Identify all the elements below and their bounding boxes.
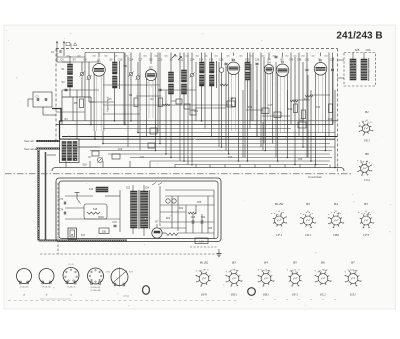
wire — [201, 224, 203, 233]
capacitor C64 — [201, 220, 203, 224]
chassis right dashed boundary wire — [337, 49, 339, 174]
bus wire — [138, 132, 335, 134]
component box — [112, 154, 120, 159]
svg-text:R16: R16 — [288, 108, 293, 111]
wire — [103, 104, 233, 106]
tube base diagram EF1 — [287, 270, 302, 287]
wire — [42, 107, 44, 115]
wire — [146, 118, 148, 137]
svg-text:R19: R19 — [328, 118, 333, 121]
label tick — [114, 55, 117, 56]
tube base diagram CF1 — [271, 212, 287, 227]
wire — [332, 72, 334, 125]
wire — [332, 53, 334, 69]
junction — [155, 150, 157, 152]
wire — [306, 72, 308, 158]
wire — [298, 53, 300, 137]
svg-text:CB2: CB2 — [333, 233, 339, 237]
power pack outer box — [56, 178, 221, 242]
switch contact arrow — [172, 55, 176, 59]
faint note line — [8, 300, 238, 302]
svg-text:(7-09-7)0: (7-09-7)0 — [20, 287, 29, 289]
wire — [338, 59, 345, 61]
cable hatch — [36, 140, 60, 142]
wire — [196, 107, 226, 109]
wire — [137, 80, 139, 133]
tube B3 — [227, 58, 240, 131]
svg-text:S16: S16 — [89, 188, 94, 191]
label tick — [195, 55, 198, 56]
wire — [334, 90, 336, 168]
small zigzag resistor — [163, 104, 170, 106]
svg-text:R22: R22 — [166, 218, 171, 220]
switch coil winding b — [68, 142, 72, 161]
chassis left dashed boundary wire — [55, 49, 57, 141]
wire — [314, 165, 316, 168]
svg-text:B5: B5 — [364, 202, 368, 206]
svg-text:B2: B2 — [149, 66, 153, 70]
svg-text:B6: B6 — [321, 261, 325, 265]
resistor box S18 — [84, 204, 107, 219]
socket view d — [88, 268, 104, 284]
top-left tiny marks — [66, 43, 77, 46]
wire — [192, 224, 194, 233]
junction — [130, 120, 132, 122]
wire — [89, 161, 91, 168]
junction — [61, 120, 63, 122]
wire — [324, 133, 326, 151]
label tick — [164, 55, 167, 56]
svg-text:C74: C74 — [59, 209, 64, 212]
IF coil S21 winding — [246, 72, 251, 80]
svg-text:S3: S3 — [61, 80, 65, 84]
diode circle — [219, 68, 224, 73]
svg-text:B4: B4 — [264, 261, 268, 265]
svg-text:R12: R12 — [194, 110, 199, 113]
capacitor C76 — [114, 225, 117, 227]
socket view a — [17, 269, 32, 284]
capacitor C59 — [331, 69, 334, 71]
capacitor C73 — [64, 202, 66, 205]
wire — [159, 91, 161, 144]
svg-text:C60: C60 — [366, 48, 371, 52]
svg-text:EK1: EK1 — [230, 293, 237, 297]
chassis bottom dash-dot line — [5, 173, 352, 175]
small zigzag resistor — [290, 100, 298, 102]
power pack bottom dashed line — [40, 253, 220, 255]
svg-text:C22: C22 — [118, 148, 123, 151]
resistor R16 — [294, 104, 298, 113]
wire — [179, 53, 181, 162]
svg-text:C14: C14 — [129, 59, 134, 62]
wire — [65, 218, 120, 220]
tube base diagram EL2 — [314, 270, 331, 286]
svg-text:CF3: CF3 — [363, 233, 369, 237]
resistor R9 — [159, 98, 163, 107]
svg-text:R17: R17 — [304, 98, 309, 101]
wire — [247, 53, 249, 63]
wire — [246, 109, 263, 111]
junction — [90, 124, 92, 126]
svg-text:B7: B7 — [351, 261, 355, 265]
wire — [239, 165, 241, 168]
label tick — [204, 55, 207, 56]
svg-text:4,5V: 4,5V — [199, 241, 204, 244]
svg-text:C1: C1 — [51, 50, 55, 54]
IF coil S14 winding — [200, 62, 205, 73]
wire — [160, 89, 196, 91]
capacitor C63 — [192, 220, 194, 224]
shielded cable to earth — [36, 147, 60, 149]
wire — [211, 53, 213, 63]
wire — [329, 165, 331, 168]
wire — [65, 161, 67, 168]
resistor S18 zigzag — [87, 212, 100, 214]
label tick — [272, 55, 275, 56]
label tick — [104, 55, 107, 56]
component box — [298, 122, 306, 128]
S17 speaker field box — [68, 228, 77, 239]
wire — [310, 90, 312, 161]
svg-text:B3: B3 — [306, 202, 310, 206]
junction — [265, 150, 267, 152]
svg-text:R14: R14 — [248, 106, 253, 109]
bus wire — [62, 120, 338, 122]
wire — [47, 154, 56, 156]
label tick — [293, 55, 296, 56]
bus wire — [60, 138, 335, 140]
svg-text:(7+4): (7+4) — [69, 264, 74, 266]
svg-text:S18: S18 — [93, 208, 98, 211]
resistor 30 — [99, 228, 109, 234]
trimmer capacitor C4 — [79, 71, 84, 76]
wire — [94, 131, 96, 139]
wire — [250, 64, 252, 121]
wire — [69, 56, 71, 64]
IF coil S20 winding — [246, 62, 251, 70]
wire — [114, 88, 116, 121]
svg-text:C65: C65 — [208, 227, 213, 230]
wire — [320, 53, 322, 57]
coil S3 winding — [68, 77, 73, 88]
wire — [102, 131, 104, 144]
wire — [61, 90, 63, 125]
svg-text:C10: C10 — [118, 59, 123, 62]
wire — [76, 90, 78, 139]
band switch coil box — [60, 139, 80, 163]
svg-text:C64: C64 — [201, 216, 206, 219]
wire — [204, 53, 206, 129]
svg-text:EB1: EB1 — [262, 293, 269, 297]
wire — [183, 94, 185, 161]
label tick — [261, 55, 264, 56]
tube base diagram EB1 — [257, 270, 274, 287]
svg-text:B7: B7 — [155, 220, 159, 224]
svg-text:S24: S24 — [145, 187, 150, 190]
pilot lamp — [166, 199, 170, 203]
wire — [286, 133, 288, 158]
wire — [192, 214, 194, 220]
wire — [150, 53, 152, 64]
svg-text:C44: C44 — [229, 97, 234, 101]
wire — [201, 53, 203, 63]
bus wire — [103, 143, 330, 145]
switch coil winding c — [73, 142, 77, 161]
label tick — [311, 55, 314, 56]
svg-text:C28: C28 — [219, 59, 224, 62]
wire — [311, 94, 330, 96]
wire — [160, 204, 214, 206]
svg-text:C56: C56 — [298, 158, 303, 161]
wire — [315, 133, 317, 165]
wire — [224, 165, 226, 168]
wire — [149, 161, 151, 168]
svg-text:241/243 B: 241/243 B — [336, 31, 382, 42]
wire — [228, 131, 230, 154]
wire — [56, 111, 85, 113]
battery 4,5V box — [195, 238, 208, 244]
svg-text:EF9: EF9 — [200, 293, 207, 297]
tube B1 — [93, 60, 106, 132]
padder capacitor box — [150, 128, 157, 134]
wire — [160, 211, 186, 213]
svg-text:C46: C46 — [289, 59, 294, 62]
wire — [201, 86, 203, 121]
label tick — [214, 55, 217, 56]
junction — [310, 160, 312, 162]
svg-text:30Ω: 30Ω — [102, 231, 107, 234]
capacitor C2a — [45, 98, 47, 101]
svg-text:EF1: EF1 — [291, 293, 298, 297]
wire — [63, 48, 65, 56]
label tick — [174, 55, 177, 56]
cable hatch — [38, 150, 40, 241]
svg-text:CK1: CK1 — [305, 233, 312, 237]
wire — [81, 62, 83, 72]
svg-text:(7+085+08): (7+085+08) — [90, 290, 101, 292]
power pack inner box — [59, 181, 218, 239]
switch T — [75, 192, 81, 204]
S17 inner box — [70, 230, 75, 237]
capacitor C3 — [65, 89, 68, 91]
wire — [89, 101, 95, 103]
wire — [162, 232, 166, 234]
svg-text:C17: C17 — [138, 59, 143, 62]
IF coil S7 winding — [113, 76, 118, 88]
capacitor C38 — [256, 63, 259, 65]
wire — [282, 53, 284, 58]
wire — [293, 99, 310, 101]
junction — [170, 157, 172, 159]
switch coil winding a — [62, 142, 66, 161]
shielded lead from input box — [52, 109, 61, 140]
wire — [290, 53, 292, 125]
capacitor C1 — [59, 51, 61, 52]
trimmer capacitor C24 — [189, 72, 194, 77]
wire — [178, 232, 214, 234]
capacitor C55 box — [274, 112, 281, 118]
IF can core 2 — [216, 61, 218, 88]
svg-text:C73: C73 — [59, 198, 64, 201]
wire — [81, 76, 83, 97]
svg-text:schaal: schaal — [123, 296, 130, 298]
svg-text:B4: B4 — [334, 202, 338, 206]
tube base diagram CB2 — [328, 212, 344, 228]
coil S16 — [96, 187, 108, 192]
wire — [170, 53, 172, 73]
wire — [43, 114, 56, 116]
wire — [165, 90, 167, 154]
cable hatch — [36, 148, 60, 150]
wire — [28, 98, 33, 100]
junction — [294, 164, 296, 166]
svg-text:C48: C48 — [297, 59, 302, 62]
bus wire — [62, 136, 338, 138]
svg-text:(7-09-7)0: (7-09-7)0 — [42, 287, 51, 289]
wire — [269, 165, 271, 168]
power pack left dashed edge — [57, 183, 59, 254]
power transformer winding S22 — [131, 191, 138, 228]
wire — [165, 189, 214, 191]
wire — [249, 53, 251, 129]
wire — [328, 53, 330, 137]
component box — [92, 151, 99, 156]
junction — [277, 160, 279, 162]
svg-text:B5: B5 — [293, 261, 297, 265]
svg-text:C76: C76 — [112, 221, 117, 224]
IF coil S6 winding — [113, 62, 118, 74]
socket view b — [39, 269, 54, 284]
faint specks — [250, 298, 252, 301]
wire — [62, 96, 91, 98]
svg-text:C20: C20 — [158, 59, 163, 62]
resistor R17 — [302, 110, 306, 119]
trimmer capacitor C5 — [86, 75, 91, 80]
wire — [57, 56, 85, 58]
junction — [124, 124, 126, 126]
wire — [302, 62, 304, 147]
wire — [27, 99, 29, 107]
capacitor C8 — [124, 65, 127, 67]
junction — [247, 160, 249, 162]
small zigzag resistor — [188, 212, 196, 214]
shielded cable left vertical — [37, 150, 39, 241]
label tick — [185, 55, 188, 56]
svg-text:S22: S22 — [126, 187, 131, 190]
wire — [207, 196, 209, 233]
capacitor C20 — [159, 89, 162, 91]
junction — [221, 146, 223, 148]
osc trimmer box — [176, 99, 182, 104]
svg-text:C24: C24 — [190, 59, 195, 62]
socket view c — [63, 268, 79, 284]
IF coil S16b winding — [210, 62, 215, 73]
wire — [268, 53, 270, 60]
tube base diagram EK1 — [225, 270, 242, 287]
wire — [56, 48, 58, 62]
wire — [160, 227, 186, 229]
wire — [177, 196, 179, 231]
potentiometer — [97, 157, 102, 162]
wire — [201, 214, 203, 220]
input network box — [33, 92, 52, 107]
svg-text:C31: C31 — [140, 156, 145, 159]
resistor zigzag — [166, 233, 178, 236]
switch contact arrow — [178, 57, 182, 61]
wire — [84, 53, 86, 121]
wire — [130, 53, 132, 72]
svg-text:B3: B3 — [232, 261, 236, 265]
tube base diagram EF9 — [195, 270, 210, 287]
wire — [124, 53, 126, 65]
junction — [165, 153, 167, 155]
svg-text:Naar aarde: Naar aarde — [24, 147, 38, 151]
junction — [228, 153, 230, 155]
wire — [136, 95, 161, 97]
socket view e — [111, 267, 128, 286]
rectifier tube B7 — [152, 224, 162, 238]
tube B5 — [276, 60, 289, 133]
svg-text:C59: C59 — [330, 59, 335, 62]
switch contact arrow — [200, 69, 204, 73]
svg-text:B6: B6 — [365, 152, 369, 156]
wire — [105, 195, 120, 197]
wire — [307, 75, 309, 158]
wire — [89, 101, 114, 103]
ring symbol — [143, 286, 150, 295]
wire — [132, 185, 134, 191]
wire — [275, 62, 277, 158]
wire — [352, 53, 354, 60]
wire — [65, 195, 93, 197]
shielded cable to antenna — [36, 140, 60, 142]
wire — [209, 165, 211, 168]
coil S1 winding — [68, 64, 73, 75]
bus wire — [66, 146, 335, 148]
wire — [159, 53, 161, 90]
wire — [264, 120, 266, 151]
wire — [85, 52, 124, 54]
svg-text:S1: S1 — [61, 67, 65, 71]
wire — [299, 165, 301, 168]
wire — [123, 53, 125, 125]
svg-text:S14: S14 — [199, 59, 204, 62]
wire — [130, 76, 132, 120]
wire — [247, 80, 249, 161]
wire — [244, 62, 246, 158]
wire — [170, 94, 172, 158]
svg-text:C57: C57 — [300, 119, 305, 122]
osc coil S10 winding — [169, 84, 174, 94]
wire — [159, 186, 161, 226]
wire — [127, 57, 129, 147]
wire — [139, 53, 141, 151]
capacitor C74 — [64, 212, 66, 215]
wire — [171, 196, 173, 228]
tube base diagram CF3 — [358, 212, 374, 228]
capacitor C44 box — [227, 101, 235, 107]
osc trimmer box 2 — [184, 104, 190, 109]
wire — [272, 120, 274, 144]
svg-text:C66: C66 — [197, 202, 202, 204]
junction — [287, 157, 289, 159]
wire — [195, 62, 197, 121]
svg-text:(6-085-08): (6-085-08) — [91, 287, 101, 289]
wire — [284, 165, 286, 168]
svg-text:S25: S25 — [355, 48, 360, 52]
svg-text:C63: C63 — [191, 216, 196, 219]
wire — [124, 68, 126, 125]
